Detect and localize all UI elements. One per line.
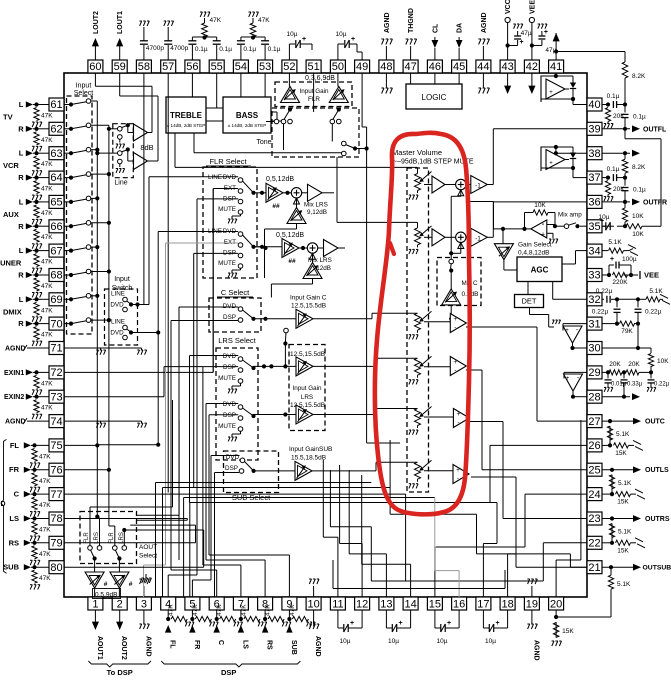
FR arrow [189,625,195,633]
AGND label (pin 48) [385,46,387,60]
ground [32,121,34,123]
capacitor 0.22u [650,372,652,378]
svg-text:0.22µ: 0.22µ [645,308,662,315]
svg-text:14: 14 [404,598,416,610]
mix LRS amp ch2 (up) [303,263,322,279]
wire pin 55 [216,73,218,108]
svg-text:33: 33 [588,270,600,282]
wire [33,104,49,106]
wire switch to bus [91,319,109,321]
red pen lift mark [390,243,394,254]
svg-text:53: 53 [259,61,271,73]
svg-text:C: C [14,490,20,499]
wire bus to amp2 [97,152,117,154]
svg-text:C Select: C Select [221,288,250,297]
master volume pot ch3 [417,312,419,314]
wire bundle vertical 6 [189,503,191,598]
svg-text:FL: FL [10,441,20,450]
wire bundle vertical EXT1 [212,189,214,373]
svg-text:LS: LS [241,640,248,649]
pin 46 [427,60,442,73]
resistor 47K (DMIX L) [34,302,39,315]
pin 2 [112,597,127,610]
svg-text:13: 13 [380,598,392,610]
resistor 47K (FR) [32,473,37,486]
svg-text:0,5,9dB: 0,5,9dB [95,592,117,599]
svg-text:55: 55 [211,61,223,73]
wire AGC to pin 34 [562,263,576,265]
wire pin38 row [556,152,587,154]
svg-text:18: 18 [501,598,513,610]
svg-text:Tone: Tone [256,139,271,146]
pin 17 [476,597,491,610]
wire [33,298,49,300]
staircase horizontal 1 [156,482,372,484]
master volume pot ch6 [417,461,419,463]
svg-text:+: + [549,90,553,96]
To DSP brace [88,661,150,667]
pin 40 [587,98,602,111]
VCC terminal (pin 43) [507,22,509,60]
wire TREBLE bottom 1 to master pot1 [174,133,176,167]
wire tone out to long vertical [355,148,367,150]
svg-text:RS: RS [9,538,19,547]
resistor 47K (TV L) [34,108,39,121]
svg-text:R: R [18,124,24,133]
svg-text:65: 65 [50,197,62,209]
svg-text:EXIN1: EXIN1 [4,370,24,377]
wire pin 57 down to bundle [167,73,169,493]
LS arrow [238,625,244,633]
svg-text:0,3,6,9dB: 0,3,6,9dB [305,75,335,82]
small ground near pin31 [549,326,554,328]
wire BASS out right [271,111,277,113]
svg-text:36: 36 [588,197,600,209]
svg-text:MUTE: MUTE [218,260,236,267]
aout switch 2 [113,546,118,551]
SUB Select dashed box [224,451,279,493]
capacitor 0.22u right [637,299,639,307]
pin 4 [161,597,176,610]
svg-text:VCR: VCR [3,161,19,170]
pin 22 15K [602,542,612,544]
svg-text:47K: 47K [39,478,51,485]
tone switch C [342,141,347,146]
svg-text:47K: 47K [41,259,53,266]
svg-text:AGND: AGND [314,636,321,657]
resistor 47K (RS) [32,546,37,559]
svg-text:TREBLE: TREBLE [170,111,203,120]
wire bottom pin 18 up [507,554,509,597]
IC body outline [64,73,587,597]
wire pin 45 to LOGIC [458,73,460,84]
wire C select out [254,318,297,320]
svg-text:R: R [18,271,24,280]
svg-text:47K: 47K [39,527,51,534]
svg-text:DSP: DSP [223,314,236,321]
ground [30,559,32,561]
svg-text:Mix amp: Mix amp [558,212,582,219]
pin 6 [209,597,224,610]
wire LRS DVD1 feed [189,356,191,503]
svg-text:AGND: AGND [481,12,488,33]
pin 69 [49,293,64,306]
svg-text:10µ: 10µ [287,31,298,38]
svg-text:-: - [457,475,459,482]
buffer amp unit pins41/40 [541,76,573,102]
pin 79 [49,536,64,549]
svg-text:15K: 15K [617,547,629,554]
svg-text:+: + [495,620,499,627]
pin 74 [49,415,64,428]
buffer amp unit pins38/37 [541,147,573,171]
svg-text:± 14dB, 2dB STEP: ± 14dB, 2dB STEP [167,123,206,128]
line switch 2 [118,151,123,156]
svg-text:LINE: LINE [111,319,125,326]
svg-text:73: 73 [50,391,62,403]
wire pin51 [313,59,315,61]
capacitor 0.33u [623,372,625,378]
svg-text:58: 58 [138,61,150,73]
resistor 47K (TV R) [34,132,39,145]
output amp ch4 [424,366,450,368]
capacitor 0.1u [216,45,218,60]
ground [417,191,419,194]
wire LINE2 feed [157,232,159,333]
svg-text:Gain Select: Gain Select [518,242,552,249]
svg-text:+: + [520,39,524,46]
pin 60 [88,60,103,73]
svg-text:62: 62 [50,124,62,136]
ground [234,621,236,623]
svg-text:15K: 15K [615,450,627,457]
svg-text:DVD: DVD [223,401,237,408]
resistor 47K (DMIX R) [34,327,39,340]
pin 8 [258,597,273,610]
wire to gain amp [254,192,267,194]
OUTFR output [602,201,630,203]
ground [32,316,34,318]
DSP FL (pin 4) [167,610,169,619]
TREBLE block [166,97,206,133]
svg-text:47K: 47K [41,161,53,168]
line switch 1 [118,127,123,132]
pin 41 arrow and wire to 8.2K [555,33,557,60]
svg-text:1: 1 [92,598,98,610]
pin 28 arrow [602,396,630,398]
wire pin 49 route [361,73,363,127]
resistor 47K (SUB) [32,570,37,583]
input select switch (pin 68) [64,274,71,276]
svg-text:35: 35 [588,221,600,233]
wire mix C input [450,305,452,319]
svg-text:10K: 10K [534,202,546,209]
ground [30,486,32,488]
svg-text:Input: Input [76,83,92,90]
svg-text:25: 25 [588,464,600,476]
svg-text:##: ## [288,258,296,265]
resistor 47K [195,616,211,621]
master amp ch1 [432,176,445,193]
DET block [515,295,544,308]
wire amp2 to pin 59 [148,160,159,162]
svg-text:76: 76 [50,464,62,476]
pin 34 resistor 5.1K [602,250,608,252]
AGND ground (pin 3) [143,610,145,624]
wire amp1 to pin 60 [148,132,153,134]
svg-text:+: + [610,256,614,263]
svg-text:42: 42 [526,61,538,73]
pin 78 [49,512,64,525]
svg-text:47K: 47K [41,307,53,314]
wire bottom pin 13 up-left [385,554,387,597]
wire bottom pin 15 up [434,547,436,597]
svg-text:+: + [566,376,570,382]
pin 68 [49,269,64,282]
wire DSP2 feed [193,253,195,487]
DA input arrow (pin 45) [458,48,460,60]
ground [32,145,34,147]
OUTRS output [602,518,633,520]
svg-text:26: 26 [588,440,600,452]
svg-text:+: + [398,620,402,627]
pin 65 [49,195,64,208]
svg-text:OUTC: OUTC [645,419,665,426]
FLR switch arm [251,191,255,195]
svg-text:DSP: DSP [221,668,236,677]
svg-text:AOUT1: AOUT1 [96,636,103,660]
svg-text:47K: 47K [192,604,199,616]
svg-text:-: - [454,324,456,331]
svg-text:59: 59 [114,61,126,73]
THGND label (pin 47) [410,46,412,60]
staircase horizontal 4 [190,502,497,504]
svg-text:LS: LS [9,514,19,523]
svg-text:47K: 47K [41,113,53,120]
svg-text:47K: 47K [41,405,53,412]
pin 77 [49,488,64,501]
svg-text:47K: 47K [265,604,272,616]
svg-text:5.1K: 5.1K [617,581,631,588]
svg-text:47K: 47K [41,283,53,290]
C arrow [213,625,220,633]
LOGIC block [406,84,462,109]
pin 57 [161,60,176,73]
svg-text:20K: 20K [628,361,640,368]
output amp ch3 [424,321,450,323]
svg-text:3: 3 [141,598,147,610]
pin 24 [587,488,602,501]
AGC block [517,257,562,282]
wire pin 50 to amp2 [337,73,339,87]
svg-text:AGND: AGND [5,419,26,426]
svg-text:32: 32 [588,294,600,306]
svg-text:29: 29 [588,367,600,379]
mix LRS amp ch1 (up) [287,208,306,224]
svg-text:5.1K: 5.1K [618,480,632,487]
pin 64 [49,171,64,184]
svg-text:66: 66 [50,221,62,233]
ground [306,621,308,623]
ground inside pin 10 [313,586,315,597]
wire ch1 out to pin 39 [487,184,493,186]
pin 54 [233,60,248,73]
wire ch6 (SUB) to pin 21 OUTSUB [471,476,516,478]
pin 15 [427,597,442,610]
svg-text:19: 19 [526,598,538,610]
svg-text:FLR: FLR [308,96,320,103]
svg-text:39: 39 [588,124,600,136]
Master Volume dashed box [407,168,429,492]
pin 9 [282,597,297,610]
amp -1 ch1 [466,184,471,186]
RS arrow [262,625,269,633]
wire bottom pin 14 up [410,564,412,597]
bus wire L [96,101,98,511]
pin 24 15K [602,493,612,495]
svg-text:+: + [541,232,545,239]
pin 21 [587,561,602,574]
summer master ch2 [456,232,466,242]
capacitor 47u (VEE) [541,40,543,46]
pin 33 network 100u/220K VEE [602,274,609,276]
input select switch (pin 63) [64,152,71,154]
svg-text:DMIX: DMIX [3,307,22,316]
FLR switch arm [251,245,255,249]
resistor 47K [268,616,284,621]
capacitor 0.01u [607,372,609,378]
wire bus to amp1 [109,128,118,130]
svg-text:0.1µ: 0.1µ [268,46,281,53]
svg-text:10µ: 10µ [340,638,351,645]
wire SUB to pot6 [312,470,376,472]
FL arrow [165,625,172,633]
svg-text:THGND: THGND [408,8,415,33]
wire SUB DVD feed [210,456,212,581]
SUB switch arm [252,469,256,473]
ground [32,267,34,269]
svg-text:47K: 47K [41,210,53,217]
wire EXT2 feed gray [143,565,145,597]
svg-text:Input GainSUB: Input GainSUB [289,446,332,453]
pin 58 [136,60,151,73]
wire pin 51 down [313,73,315,112]
gain amp 0,5,12dB ch1 [266,183,283,202]
wire AGC to DET [527,282,529,295]
op amp triangle down near pin 31 [563,326,582,343]
pin 36 [587,195,602,208]
wire amp1 to pin 1 [94,588,96,597]
ground [282,621,284,623]
pin 42 [524,60,539,73]
mix amp triangle [531,220,547,238]
svg-text:5.1K: 5.1K [616,431,630,438]
resistor 20K to ground [605,181,610,195]
pin 1 [88,597,103,610]
pin 5 [185,597,200,610]
input gain LRS amp 2 [296,405,313,424]
svg-text:10K: 10K [632,231,644,238]
VEE terminal [631,274,638,276]
wire pin 52 to amp1 [288,73,290,87]
svg-text:10µ: 10µ [437,638,448,645]
pin 52 [282,60,297,73]
pin 31 resistor 79K [602,323,617,325]
resistor 47K [171,616,187,621]
svg-text:80: 80 [50,562,62,574]
pin 63 [49,147,64,160]
summer ch1 (FL) [291,188,301,198]
wire LRS1 out [254,365,297,367]
svg-text:0,5,12dB: 0,5,12dB [276,232,304,239]
resistor 47K (VCR L) [34,156,39,169]
svg-text:37: 37 [588,172,600,184]
svg-text:-1: -1 [475,183,481,190]
svg-text:FL: FL [169,640,176,649]
ground inside pin 44 [482,73,484,88]
svg-text:-: - [454,367,456,374]
wire sel2 to amp2 [254,246,283,248]
wire pin 79 RS into chip [64,542,196,544]
svg-text:47µ: 47µ [521,30,532,37]
staircase horizontal 2 [163,487,391,489]
master volume pot ch4 [417,357,419,359]
svg-text:FLR: FLR [84,532,90,544]
svg-text:74: 74 [50,416,62,428]
svg-text:45: 45 [453,61,465,73]
OUTLS output [602,469,633,471]
mute ground [240,268,242,270]
staircase horizontal 3 [184,497,435,499]
AGND label (pin 44) [482,46,484,60]
svg-text:VCC: VCC [505,0,512,14]
wire bundle vertical C DVD lower [178,498,180,561]
svg-text:+: + [544,29,548,36]
resistor 20K to ground [605,108,610,122]
pin 34 [587,244,602,257]
svg-text:Input: Input [114,276,130,283]
pin 19 [524,597,539,610]
tone switch dashed box [272,108,359,157]
pin 12 [355,597,370,610]
pin 73 [49,390,64,403]
wire gain select feed [501,227,505,231]
svg-text:+: + [565,328,569,334]
wire switch to bus [91,124,109,126]
wire to gain amp [254,246,267,248]
svg-text:0.1µ: 0.1µ [633,187,646,194]
svg-text:LOUT2: LOUT2 [93,11,100,34]
pin 72 [49,366,64,379]
wire bottom pin 16 up (gray) [458,571,460,597]
wire [33,177,49,179]
pin 80 [49,561,64,574]
master amp ch2 [432,229,445,246]
pin 61 [49,98,64,111]
svg-text:5.1K: 5.1K [649,288,663,295]
resistor 47K (C) [32,497,37,510]
mute ground [240,214,242,216]
Input Gain FLR dashed box [275,82,352,107]
DSP C (pin 6) [216,610,218,619]
pin 51 [306,60,321,73]
svg-text:Select: Select [139,553,157,560]
input select switch (pin 67) [64,250,71,252]
svg-text:47K: 47K [39,453,51,460]
svg-text:AGND: AGND [5,346,26,353]
input select switch (pin 69) [64,298,71,300]
wire bundle connects from bottom pins [167,575,169,597]
